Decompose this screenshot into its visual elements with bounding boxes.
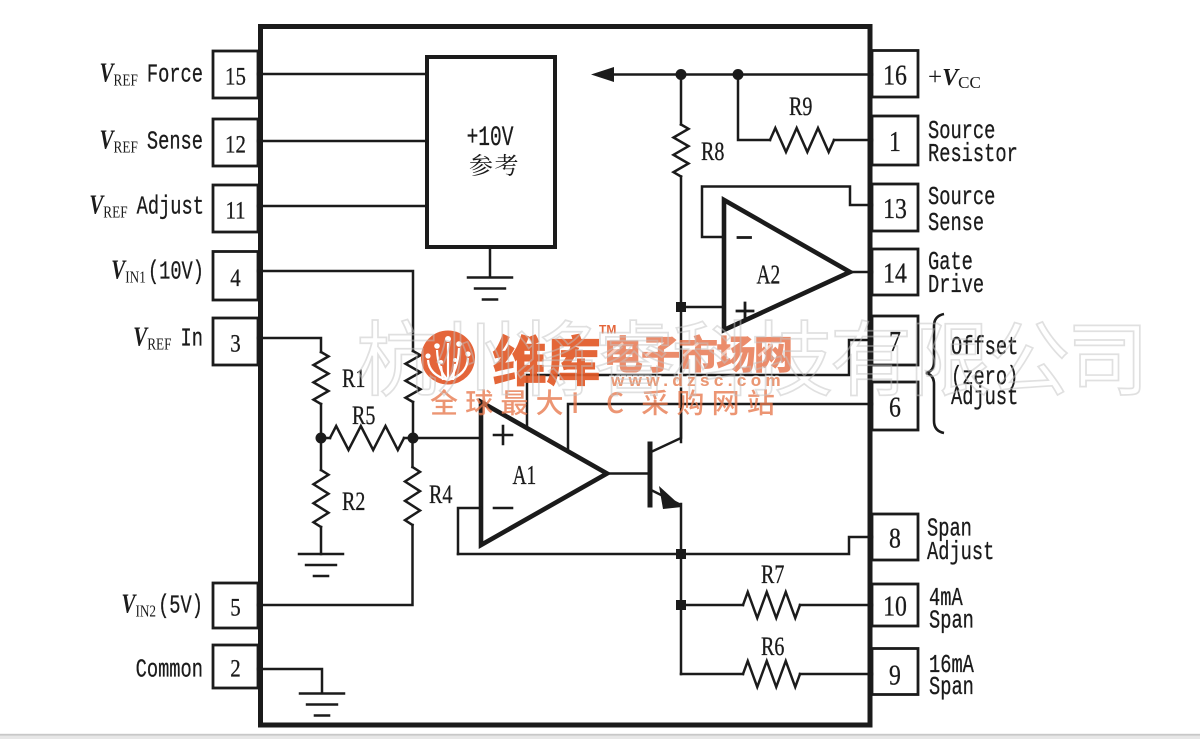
svg-text:12: 12 (225, 131, 246, 159)
pin 4 box (213, 252, 258, 301)
pin 13 number (883, 192, 907, 225)
A1 plus sign (494, 426, 512, 444)
svg-text:R5: R5 (352, 402, 375, 431)
svg-text:R8: R8 (701, 138, 724, 167)
pin 6 box (872, 382, 918, 430)
pin 1 box (872, 116, 918, 165)
svg-text:Span: Span (929, 606, 974, 636)
op-amp A2 (724, 200, 850, 330)
label Vref Sense (147, 127, 203, 157)
wire pin11 to +10V block (258, 205, 427, 208)
svg-text:+VCC: +VCC (928, 64, 981, 92)
transistor Q1 collector (651, 413, 681, 452)
wire pin7 to A1 (527, 340, 872, 428)
ground below +10V block (489, 247, 492, 277)
pin 16 number (883, 58, 907, 91)
pin 2 box (213, 645, 258, 688)
A1 minus sign (494, 507, 512, 510)
pin 2 number (230, 655, 240, 683)
wire node B to A1 plus input (413, 437, 481, 440)
pin 5 box (213, 583, 258, 628)
resistor R1 (314, 352, 329, 404)
IC outer boundary box (261, 27, 871, 726)
pin 7 number (889, 325, 901, 358)
svg-text:(10V): (10V) (148, 257, 204, 287)
svg-text:VREF: VREF (89, 190, 127, 222)
node B junction dot (408, 433, 419, 444)
pin 11 box (213, 185, 258, 232)
svg-text:R6: R6 (761, 633, 784, 662)
R5 label (352, 402, 375, 431)
wire emitter down (680, 504, 683, 554)
svg-text:Force: Force (147, 60, 203, 90)
label Common (136, 655, 203, 685)
wire pin6 to A1 (568, 404, 872, 451)
junction dot at R8 top (676, 69, 687, 80)
svg-text:Resistor: Resistor (928, 139, 1018, 169)
junction dot A2 plus (676, 302, 686, 312)
junction dot emitter node (676, 549, 686, 559)
pin 8 number (889, 521, 901, 554)
current direction arrow (591, 67, 614, 82)
svg-text:R4: R4 (429, 481, 453, 510)
pin 14 number (883, 256, 907, 289)
label Span Adjust (927, 514, 972, 544)
svg-text:+10V: +10V (467, 123, 514, 154)
svg-text:Drive: Drive (928, 270, 984, 300)
svg-text:(5V): (5V) (158, 591, 203, 621)
A2 plus sign (737, 303, 753, 319)
resistor R8 (680, 75, 683, 125)
svg-text:5: 5 (230, 594, 240, 622)
pin 7 box (872, 316, 918, 365)
pin 10 number (883, 589, 907, 622)
wire A2 output to pin14 (850, 271, 872, 274)
svg-text:TM: TM (599, 323, 616, 337)
label Vin2 (5V) (158, 591, 203, 621)
svg-text:Span: Span (929, 672, 974, 702)
wire pin15 to +10V block (258, 73, 427, 76)
A1 label (513, 461, 537, 491)
pin 9 number (889, 658, 901, 691)
offset adjust brace (926, 314, 944, 433)
wire pin5 to R4 bottom (258, 525, 413, 605)
node A junction dot (316, 433, 327, 444)
junction dot R7 node (676, 600, 686, 610)
svg-text:13: 13 (883, 192, 907, 225)
svg-text:15: 15 (225, 63, 246, 91)
svg-text:A1: A1 (513, 461, 537, 491)
svg-text:VREF: VREF (99, 125, 137, 157)
wire pin12 to +10V block (258, 140, 427, 143)
svg-text:10: 10 (883, 589, 907, 622)
resistor R6 (681, 673, 743, 676)
R2 label (342, 488, 365, 517)
svg-text:Adjust: Adjust (927, 537, 994, 567)
watermark gray company text (359, 319, 1140, 396)
resistor R5 (330, 426, 404, 450)
resistor R9 (738, 75, 770, 141)
+10V reference block U1 (427, 57, 555, 247)
pin 3 box (213, 318, 258, 365)
label Vref In (181, 324, 203, 354)
junction dot at R9 branch (733, 69, 744, 80)
svg-text:VIN2: VIN2 (121, 589, 156, 621)
pin 4 number (230, 264, 241, 292)
label Gate Drive (928, 247, 973, 277)
svg-text:2: 2 (230, 655, 240, 683)
resistor R3 (406, 351, 421, 402)
label 16mA Span (929, 650, 974, 680)
resistor R7 (681, 604, 743, 607)
transistor Q1 base wire from A1 output (607, 472, 648, 475)
label Offset (zero) Adjust (951, 332, 1018, 362)
label 4mA Span (929, 583, 963, 613)
R8 label (701, 138, 724, 167)
svg-text:8: 8 (889, 521, 901, 554)
pin 15 box (213, 51, 258, 98)
pin 16 box (872, 51, 918, 98)
svg-text:R2: R2 (342, 488, 365, 517)
transistor Q1 base bar (648, 444, 653, 505)
wire feedback to pin8 (458, 537, 872, 554)
svg-text:3: 3 (230, 330, 240, 358)
svg-text:4: 4 (230, 264, 241, 292)
op-amp A1 (481, 402, 607, 545)
highlight veins on 电子市场网 (608, 343, 773, 356)
ground at pin2 (300, 692, 344, 695)
pin 5 number (230, 594, 240, 622)
wire pin3 down to R1 (258, 338, 321, 352)
R4 label (429, 481, 453, 510)
pin 12 number (225, 131, 246, 159)
wire R3 to node B (412, 402, 415, 438)
label Source Sense (928, 182, 995, 212)
pin 13 box (872, 184, 918, 231)
wire A1 minus feedback loop (458, 508, 481, 554)
svg-text:VREF: VREF (99, 58, 137, 90)
logo circle (421, 331, 475, 385)
label Vref Adjust (137, 192, 204, 222)
wire +Vcc rail to pin16 (610, 73, 872, 76)
pin 15 number (225, 63, 246, 91)
svg-text:VIN1: VIN1 (111, 255, 146, 287)
pin 6 number (889, 390, 901, 423)
wire down to R7 node (680, 554, 683, 674)
R7 label (761, 561, 784, 590)
wire A2 minus to pin13 (702, 187, 872, 238)
label Vref Force (147, 60, 203, 90)
transistor Q1 emitter with arrow (651, 490, 679, 504)
svg-text:Sense: Sense (928, 208, 984, 238)
A2 minus sign (738, 236, 751, 239)
scan artifact bottom line (0, 734, 1200, 736)
svg-text:9: 9 (889, 658, 901, 691)
A2 label (757, 261, 781, 291)
ground below R2 (320, 527, 323, 554)
svg-text:Adjust: Adjust (137, 192, 204, 222)
svg-text:1: 1 (889, 125, 901, 158)
svg-text:16: 16 (883, 58, 907, 91)
logo traces (428, 343, 468, 380)
svg-text:R7: R7 (761, 561, 784, 590)
R6 label (761, 633, 784, 662)
resistor R4 (411, 438, 414, 467)
R9 label (789, 93, 812, 122)
pin 11 number (225, 197, 245, 225)
R1 label (342, 365, 365, 394)
svg-text:A2: A2 (757, 261, 781, 291)
wire R1 to node A (320, 404, 323, 438)
watermark 电子市场网 (607, 334, 791, 372)
resistor R2 (320, 438, 323, 470)
svg-text:Adjust: Adjust (951, 382, 1018, 412)
svg-text:Common: Common (136, 655, 203, 685)
wire R8 down to transistor collector (680, 177, 683, 443)
pin 12 box (213, 119, 258, 166)
watermark 全球最大IC采购网站 (431, 389, 774, 415)
wire pin2 to ground (258, 669, 322, 693)
svg-text:VREF: VREF (133, 322, 171, 354)
pin 8 box (872, 514, 918, 560)
svg-text:In: In (181, 324, 203, 354)
svg-text:R9: R9 (789, 93, 812, 122)
wire A2 plus input junction (681, 306, 724, 309)
label Vin1 (10V) (148, 257, 204, 287)
svg-text:Sense: Sense (147, 127, 203, 157)
pin 9 box (872, 649, 918, 695)
pin 1 number (889, 125, 901, 158)
svg-text:14: 14 (883, 256, 907, 289)
wire pin4 down to R3 (258, 271, 413, 351)
pin 14 box (872, 249, 918, 295)
+10V block text (467, 123, 518, 176)
svg-text:11: 11 (225, 197, 245, 225)
pin 10 box (872, 584, 918, 626)
pin 3 number (230, 330, 240, 358)
label Source Resistor (928, 116, 995, 146)
logo wordmark 维库 (493, 334, 599, 387)
